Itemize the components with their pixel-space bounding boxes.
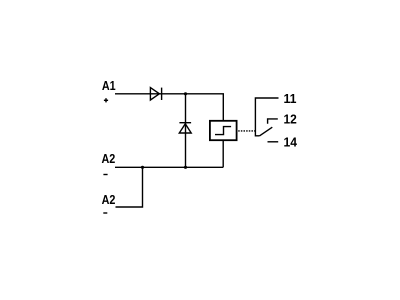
svg-text:12: 12 [284,112,297,127]
svg-text:14: 14 [284,134,298,149]
svg-text:A2: A2 [102,152,116,166]
svg-text:A1: A1 [102,79,116,93]
svg-text:11: 11 [284,91,297,106]
svg-text:A2: A2 [102,193,116,207]
